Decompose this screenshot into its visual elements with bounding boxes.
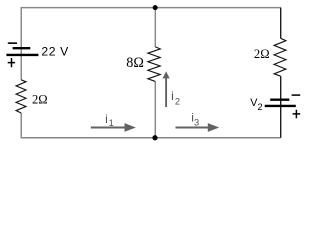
svg-text:22 V: 22 V <box>41 45 69 59</box>
svg-text:2Ω: 2Ω <box>32 93 48 107</box>
svg-text:2Ω: 2Ω <box>254 47 270 61</box>
svg-text:3: 3 <box>194 117 199 127</box>
svg-text:8Ω: 8Ω <box>126 55 144 71</box>
svg-text:2: 2 <box>258 102 263 112</box>
svg-text:i: i <box>171 89 174 103</box>
svg-text:i: i <box>105 112 108 126</box>
svg-text:1: 1 <box>109 118 114 128</box>
svg-text:2: 2 <box>175 97 180 107</box>
